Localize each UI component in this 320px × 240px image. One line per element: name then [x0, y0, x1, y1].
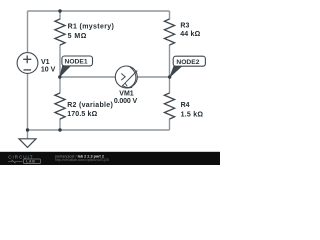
wire bottom horizontal [28, 129, 170, 131]
wire top horizontal [28, 10, 170, 12]
resistor R1 [55, 19, 65, 45]
footer logo LAB box [24, 159, 41, 164]
footer bar [0, 152, 220, 165]
svg-text:0.000 V: 0.000 V [114, 98, 138, 105]
footer logo waveform [8, 160, 23, 163]
wire right vertical between R3 and R4 [169, 45, 171, 93]
svg-text:5 MΩ: 5 MΩ [68, 33, 87, 40]
junction node dot top [58, 9, 61, 12]
wire voltmeter row left [60, 76, 116, 78]
wire middle vertical lower lead [59, 119, 61, 130]
wire middle vertical upper lead [59, 11, 61, 20]
resistor R4 [164, 93, 174, 119]
node label NODE2 [170, 56, 205, 77]
junction node dot bottom middle [58, 128, 61, 131]
junction node dot NODE1 [58, 75, 61, 78]
svg-text:170.5 kΩ: 170.5 kΩ [67, 111, 97, 118]
junction node dot NODE2 [168, 75, 171, 78]
wire ground stem [27, 130, 29, 139]
voltmeter VM1 [115, 66, 137, 88]
svg-text:NODE1: NODE1 [65, 59, 88, 66]
junction node dot ground [26, 128, 29, 131]
wire right vertical lower lead [169, 119, 171, 130]
svg-text:http://circuitlab.com/c/p6kbz4: http://circuitlab.com/c/p6kbz4d7Q25 [55, 158, 109, 162]
svg-text:VM1: VM1 [119, 90, 134, 97]
resistor R3 [164, 19, 174, 45]
svg-text:10 V: 10 V [41, 67, 56, 74]
voltage source V1 [17, 53, 38, 74]
svg-text:LAB: LAB [26, 160, 35, 164]
wire middle vertical between R1 and R2 [59, 45, 61, 93]
svg-text:44 kΩ: 44 kΩ [180, 31, 200, 38]
svg-text:R1 (mystery): R1 (mystery) [68, 23, 115, 30]
wire left vertical upper [27, 11, 29, 53]
svg-text:R3: R3 [180, 23, 189, 30]
wire right vertical upper lead [169, 11, 171, 20]
svg-text:NODE2: NODE2 [176, 59, 199, 66]
svg-text:R2 (variable): R2 (variable) [67, 102, 113, 109]
wire left vertical lower [27, 73, 29, 130]
node label NODE1 [60, 56, 93, 77]
svg-text:R4: R4 [181, 102, 190, 109]
svg-text:V1: V1 [41, 59, 50, 66]
ground [19, 139, 36, 148]
svg-text:1.5 kΩ: 1.5 kΩ [181, 111, 204, 118]
resistor R2 [55, 93, 65, 119]
wire voltmeter row right [137, 76, 170, 78]
